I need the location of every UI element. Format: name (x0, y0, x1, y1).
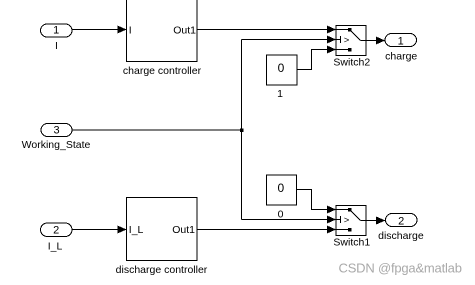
svg-text:Working_State: Working_State (22, 139, 91, 151)
svg-text:discharge: discharge (378, 230, 424, 242)
label discharge (outport 2 name) (378, 230, 424, 242)
wire trunk to Switch1 input 2 (control) (242, 216, 337, 224)
svg-text:charge controller: charge controller (123, 65, 202, 77)
inport 1 (41, 24, 73, 37)
label charge controller (123, 65, 202, 77)
label charge (outport 1 name) (385, 50, 417, 62)
outport 1 (385, 34, 417, 48)
svg-text:I_L: I_L (48, 241, 63, 253)
svg-text:>: > (344, 35, 350, 46)
svg-text:charge: charge (385, 50, 417, 62)
outport 2 (386, 214, 418, 228)
svg-text:1: 1 (277, 88, 283, 100)
svg-text:0: 0 (277, 181, 284, 195)
wire charge controller Out1 to Switch2 input 1 (197, 26, 336, 34)
wire Switch2 output to outport 1 (366, 37, 385, 45)
label 0 (lower constant name) (278, 208, 284, 220)
svg-text:0: 0 (278, 208, 284, 220)
wire Working_State vertical trunk (241, 40, 243, 220)
svg-text:I: I (55, 40, 58, 52)
svg-text:I: I (129, 25, 132, 37)
svg-text:>: > (344, 215, 350, 226)
svg-text:3: 3 (53, 124, 59, 136)
inport 3 (41, 124, 72, 137)
constant block (value 0, name "1") (267, 55, 298, 85)
svg-text:2: 2 (53, 224, 59, 236)
wire lower constant to Switch1 input 1 (297, 190, 337, 214)
wire inport1 to charge controller input I (72, 26, 127, 34)
wire Working_State horizontal segment (72, 129, 242, 131)
wire upper constant to Switch2 input 3 (297, 46, 336, 70)
svg-text:2: 2 (398, 215, 404, 227)
label I (inport 1 name) (55, 40, 58, 52)
label Switch1 (333, 237, 370, 249)
svg-text:1: 1 (53, 25, 59, 37)
svg-text:1: 1 (398, 35, 404, 47)
subsystem U1 charge controller (top clipped) (127, 0, 198, 62)
label I_L (inport 2 name) (48, 241, 63, 253)
watermark CSDN @fpga&matlab (339, 260, 462, 275)
switch Switch1 (336, 206, 366, 236)
svg-text:0: 0 (278, 61, 285, 75)
label Working_State (inport 3 name) (22, 139, 91, 151)
label discharge controller (116, 264, 208, 276)
svg-text:Out1: Out1 (172, 224, 195, 236)
wire trunk to Switch2 input 2 (control) (242, 36, 337, 44)
svg-text:Out1: Out1 (173, 25, 196, 37)
subsystem U2 discharge controller (127, 198, 198, 261)
svg-text:Switch2: Switch2 (333, 57, 370, 69)
constant block (value 0, name "0") (267, 175, 297, 205)
svg-text:I_L: I_L (129, 224, 144, 236)
svg-text:discharge controller: discharge controller (116, 264, 208, 276)
svg-text:Switch1: Switch1 (333, 237, 370, 249)
inport 2 (41, 223, 73, 237)
junction dot on Working_State net (240, 128, 244, 132)
label Switch2 (333, 57, 370, 69)
wire Switch1 output to outport 2 (366, 217, 386, 225)
label 1 (upper constant name) (277, 88, 283, 100)
wire inport2 to discharge controller input I_L (72, 226, 127, 234)
switch Switch2 (336, 26, 366, 56)
wire discharge controller Out1 to Switch1 input 3 (197, 226, 336, 234)
svg-text:CSDN @fpga&matlab: CSDN @fpga&matlab (339, 260, 462, 275)
